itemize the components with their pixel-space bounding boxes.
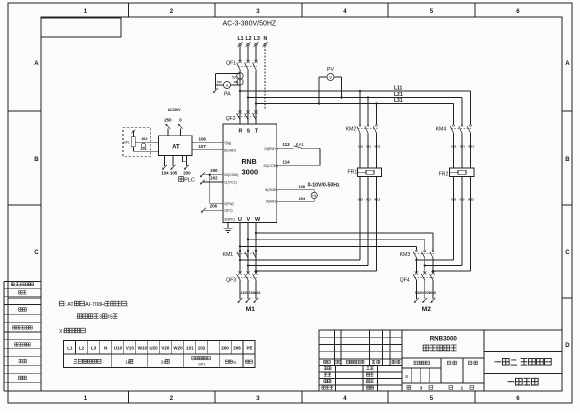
signature table	[4, 282, 41, 392]
wire 202 to pin11	[200, 175, 223, 184]
svg-text:M2: M2	[422, 306, 431, 313]
pin 9(AM1)	[266, 200, 277, 204]
pin 19(PM+)	[264, 147, 278, 151]
svg-text:PLC: PLC	[184, 178, 195, 184]
wire labels U21 V21 W21	[451, 144, 474, 148]
svg-text:A: A	[34, 61, 39, 67]
svg-text:A: A	[226, 83, 229, 88]
svg-text:106: 106	[199, 136, 207, 141]
wire 200 AT to PLC	[183, 156, 192, 176]
thermal relay FR2	[439, 168, 474, 178]
svg-text:250: 250	[164, 117, 172, 122]
svg-text:): )	[19, 283, 20, 287]
wire V to KM3	[248, 239, 425, 250]
svg-text:U10V10W10: U10V10W10	[240, 291, 261, 295]
svg-text:206: 206	[233, 346, 241, 351]
svg-text:114: 114	[283, 159, 291, 164]
wire U output	[239, 223, 241, 274]
svg-text:A: A	[565, 61, 570, 67]
svg-text:107: 107	[199, 144, 207, 149]
svg-text:N: N	[104, 346, 107, 351]
svg-text:202: 202	[210, 175, 218, 180]
label AC220V	[168, 108, 182, 112]
wire 107 AT to pin6	[192, 144, 223, 150]
wire 206 to pin1	[201, 204, 223, 213]
pin 8(GND)	[265, 188, 277, 192]
svg-text:B: B	[34, 157, 39, 163]
svg-text:D: D	[565, 343, 570, 349]
svg-text:V10: V10	[126, 346, 135, 351]
svg-text:W11: W11	[375, 144, 381, 148]
contactor KM2	[346, 91, 378, 168]
wires FR1 down to KM1 output	[240, 177, 360, 261]
wire L3 below QF1	[255, 71, 257, 125]
svg-text:200: 200	[183, 171, 191, 176]
svg-text:AC220V: AC220V	[168, 108, 182, 112]
terminal strip X table	[64, 341, 256, 368]
svg-text:2(FW): 2(FW)	[224, 202, 234, 206]
svg-text:100: 100	[217, 80, 222, 84]
wire L1 below QF1	[239, 71, 241, 125]
inverter RNB3000	[223, 124, 277, 223]
svg-text:AI-708H: AI-708H	[85, 302, 105, 308]
svg-text:W12: W12	[374, 197, 380, 201]
svg-text:L31: L31	[394, 98, 403, 104]
svg-text:S: S	[247, 129, 251, 135]
svg-text:104: 104	[161, 171, 169, 176]
svg-text:U12: U12	[358, 197, 364, 201]
pressure sensor SP1	[123, 128, 158, 157]
node L3 supply terminal	[253, 36, 260, 47]
motor M2 terminals	[414, 298, 435, 303]
motor M2	[422, 306, 431, 313]
svg-text:L1: L1	[67, 346, 73, 351]
wire 114 loop to pin20	[277, 148, 320, 165]
svg-text:U10: U10	[114, 346, 123, 351]
wire L2 phase vertical	[247, 46, 249, 62]
svg-text:L21: L21	[394, 92, 403, 98]
wire link 200 to pin2	[210, 175, 223, 204]
svg-text:W10: W10	[138, 346, 148, 351]
svg-text:KM3: KM3	[400, 252, 411, 258]
svg-text:PE: PE	[247, 346, 253, 351]
svg-text:QF2: QF2	[226, 116, 236, 122]
svg-text:102: 102	[198, 346, 206, 351]
svg-text:101: 101	[140, 147, 146, 151]
thermal relay FR1	[348, 168, 382, 177]
pin 1(K1)	[224, 209, 233, 213]
node 250 supply to AT	[164, 117, 172, 136]
wire 105 AT to PLC	[170, 156, 178, 176]
svg-text:11(YC1): 11(YC1)	[224, 181, 237, 185]
net AC-3-380V/50HZ heading	[223, 21, 277, 28]
svg-text:KA1: KA1	[296, 142, 305, 147]
svg-text:C: C	[565, 250, 570, 256]
wire labels U12 V12 W12	[358, 197, 381, 201]
svg-text:113: 113	[283, 142, 291, 147]
svg-text:U11: U11	[358, 144, 363, 148]
current transformer TA	[232, 73, 244, 86]
svg-text:RNB: RNB	[242, 159, 257, 166]
pin 30(PE)	[224, 217, 235, 221]
note text	[59, 301, 129, 335]
pin 11(YC1)	[224, 181, 237, 185]
svg-text:1(K1): 1(K1)	[224, 209, 233, 213]
svg-text:Hz: Hz	[312, 194, 316, 198]
wires FR2 down to KM3	[416, 177, 453, 261]
pin 2(FW)	[224, 202, 234, 206]
frequency meter Hz	[311, 189, 317, 201]
motor M1	[246, 306, 255, 313]
bus L31	[255, 98, 454, 125]
svg-text:V20: V20	[161, 346, 170, 351]
svg-text:8(GND): 8(GND)	[265, 188, 277, 192]
svg-text:R: R	[239, 129, 243, 135]
wire W to KM3	[256, 233, 433, 250]
svg-text:W20: W20	[173, 346, 183, 351]
circuit breaker QF2	[226, 91, 258, 124]
svg-text:KM2: KM2	[346, 126, 357, 132]
svg-text:V21: V21	[460, 144, 465, 148]
svg-text:0-10V/0-50Hz: 0-10V/0-50Hz	[308, 183, 340, 189]
ground PE below inverter	[224, 223, 233, 233]
svg-text:3: 3	[99, 315, 102, 321]
svg-text:QF4: QF4	[400, 278, 410, 284]
svg-text:C: C	[34, 250, 39, 256]
svg-text:KM4: KM4	[436, 126, 447, 132]
svg-text:SP1: SP1	[198, 363, 205, 367]
svg-text:6(GND): 6(GND)	[224, 149, 236, 153]
svg-text:PV: PV	[327, 67, 334, 73]
wire V output	[247, 223, 249, 274]
svg-text:W21: W21	[468, 144, 474, 148]
relay contact KA1	[294, 142, 305, 148]
motor M1 terminals	[238, 298, 259, 303]
svg-text:KM1: KM1	[223, 252, 234, 258]
svg-text:W22: W22	[468, 197, 474, 201]
svg-text:U20: U20	[149, 346, 158, 351]
wire labels U20 V20 W20	[415, 291, 436, 295]
svg-text:: AT: : AT	[65, 302, 75, 308]
svg-text:102: 102	[141, 137, 147, 141]
node L2 supply terminal	[245, 36, 251, 47]
svg-text:L3: L3	[254, 36, 260, 42]
pin 7(Ig)	[224, 141, 231, 145]
wire 108 from pin8	[277, 185, 315, 189]
svg-text:QF3: QF3	[226, 278, 236, 284]
label to PLC	[179, 177, 195, 184]
svg-text:U21: U21	[451, 144, 457, 148]
pin 20(COM) right	[263, 164, 277, 168]
svg-text:7(Ig): 7(Ig)	[224, 141, 231, 145]
contactor KM4	[436, 125, 472, 169]
svg-text:L11: L11	[394, 85, 403, 91]
svg-text:19(PM+): 19(PM+)	[264, 147, 278, 151]
wire N neutral (dashed, unused)	[264, 46, 266, 110]
svg-text:S: S	[405, 374, 408, 380]
svg-text:105: 105	[170, 171, 178, 176]
wire 200 to pin20	[200, 168, 223, 177]
circuit breaker QF3	[226, 271, 258, 299]
svg-text:QF1: QF1	[226, 61, 236, 67]
svg-text:U20V20W20: U20V20W20	[415, 291, 436, 295]
label 0-10V/0-50Hz	[308, 183, 340, 189]
svg-text:FR2: FR2	[439, 172, 449, 178]
node N supply terminal	[262, 36, 267, 47]
svg-text:204: 204	[299, 197, 306, 201]
svg-text:AC-3-380V/50HZ: AC-3-380V/50HZ	[223, 21, 277, 28]
circuit breaker QF4	[400, 271, 435, 299]
bus L11	[239, 85, 471, 124]
svg-text:30(PE): 30(PE)	[224, 217, 235, 221]
svg-text:20(COM): 20(COM)	[263, 164, 277, 168]
svg-text:L3: L3	[91, 346, 97, 351]
svg-text:20(COM): 20(COM)	[224, 173, 238, 177]
svg-text:PA: PA	[224, 92, 231, 98]
wire 204 from pin9	[277, 197, 315, 202]
svg-text:RNB3000: RNB3000	[430, 336, 458, 343]
svg-text:V: V	[329, 75, 332, 80]
svg-text:AT: AT	[172, 145, 180, 151]
svg-text:9(AM1): 9(AM1)	[266, 200, 277, 204]
wire 104 AT to PLC	[161, 156, 169, 176]
pin 6(GND)	[224, 149, 236, 153]
node 0 supply to AT	[178, 117, 183, 136]
wire labels U22 V22 W22	[451, 197, 474, 201]
svg-text:N: N	[264, 36, 268, 42]
wire W output	[255, 223, 257, 274]
svg-text:FR1: FR1	[348, 170, 358, 176]
title block	[319, 330, 562, 391]
node L1 supply terminal	[237, 36, 243, 47]
wire 113 from pin19	[277, 142, 294, 148]
contactor KM1	[223, 250, 258, 258]
bus L21	[247, 92, 462, 125]
svg-text:SP1: SP1	[124, 140, 130, 144]
svg-text:V11: V11	[366, 144, 371, 148]
svg-text:X:: X:	[59, 329, 64, 335]
svg-text:U22: U22	[451, 197, 457, 201]
svg-text:L2: L2	[79, 346, 85, 351]
contactor KM3	[400, 250, 435, 273]
svg-text:101: 101	[234, 80, 239, 84]
svg-text:B: B	[565, 157, 570, 163]
pin 20(COM) left	[224, 173, 238, 177]
svg-text:200: 200	[210, 168, 218, 173]
circuit breaker QF1	[226, 60, 258, 71]
svg-text:206: 206	[210, 204, 218, 209]
wire L2 below QF1	[247, 71, 249, 125]
voltmeter PV	[318, 67, 343, 105]
wire L1 phase vertical	[239, 46, 241, 62]
svg-text:V: V	[247, 217, 251, 223]
svg-text:3000: 3000	[242, 168, 259, 177]
svg-text:M1: M1	[246, 306, 255, 313]
svg-text:L2: L2	[246, 36, 252, 42]
wire labels U11 V11 W11	[358, 144, 381, 148]
svg-text:U: U	[238, 217, 242, 223]
wire labels U10 V10 W10	[240, 291, 261, 295]
svg-text:/S: /S	[108, 315, 113, 321]
wire 106 AT to pin7	[192, 136, 223, 142]
svg-text:108: 108	[299, 185, 305, 189]
meter module AT (AI-708H)	[158, 136, 192, 156]
svg-text:L1: L1	[238, 36, 244, 42]
wire L3 phase vertical	[255, 46, 257, 62]
svg-text:200: 200	[221, 346, 229, 351]
svg-text:SL: SL	[233, 360, 238, 364]
wire U to KM3	[240, 246, 416, 250]
ammeter PA	[213, 74, 240, 98]
svg-text:101: 101	[186, 346, 194, 351]
svg-text:V12: V12	[366, 197, 371, 201]
